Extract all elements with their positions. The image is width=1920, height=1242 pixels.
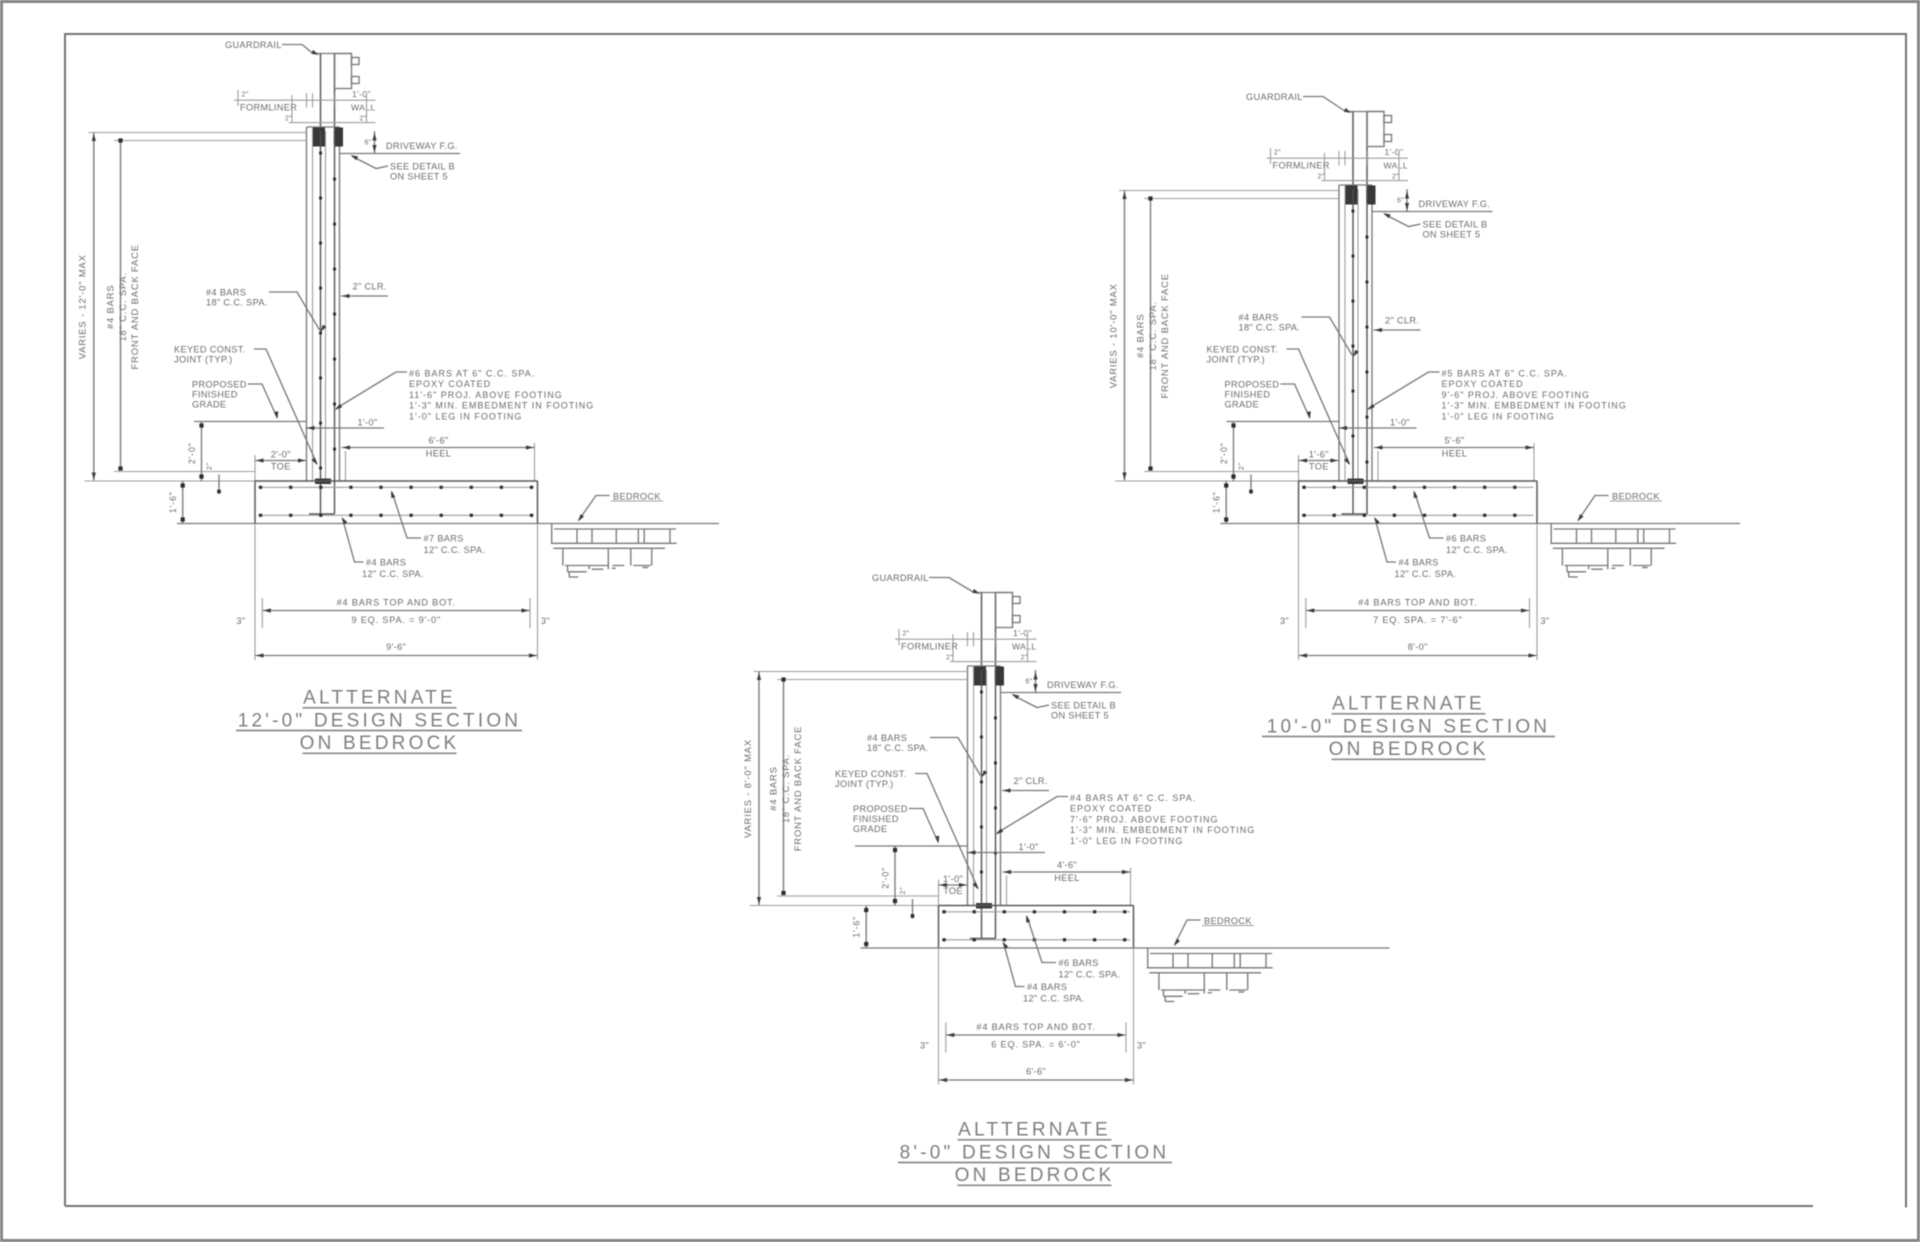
svg-text:#4 BARS: #4 BARS (206, 288, 246, 298)
svg-text:KEYED CONST.: KEYED CONST. (835, 769, 907, 779)
svg-text:ON SHEET 5: ON SHEET 5 (1051, 711, 1109, 721)
footing top rebar S1 (258, 486, 534, 488)
driveway offset dim S1 (374, 131, 376, 154)
svg-text:6": 6" (1397, 198, 1404, 205)
formliner dimension S3 (895, 638, 1037, 640)
wall mid line S1 (325, 131, 327, 481)
driveway surface S3 (1001, 692, 1122, 694)
wall back-face rebar S3 (981, 670, 983, 939)
svg-text:HEEL: HEEL (1442, 449, 1467, 459)
dowel leg in footing S3 (970, 938, 996, 940)
footing outline S3 (939, 905, 1134, 907)
svg-text:FORMLINER: FORMLINER (240, 103, 297, 113)
footing width dimension S1 (255, 655, 538, 657)
overall height dimension S1 (88, 132, 306, 134)
svg-text:ALTTERNATE: ALTTERNATE (303, 688, 456, 709)
svg-text:12" C.C. SPA.: 12" C.C. SPA. (424, 545, 486, 555)
svg-text:ALTTERNATE: ALTTERNATE (958, 1120, 1111, 1141)
svg-text:18" C.C. SPA.: 18" C.C. SPA. (206, 298, 268, 308)
svg-text:1'-6": 1'-6" (1309, 450, 1329, 460)
svg-text:#4 BARS: #4 BARS (105, 285, 116, 330)
svg-text:1'-0": 1'-0" (1019, 842, 1039, 852)
guardrail anchor blocks S2 (1346, 186, 1358, 205)
driveway surface S1 (340, 153, 461, 155)
svg-text:2": 2" (946, 655, 953, 662)
svg-text:GRADE: GRADE (853, 824, 887, 834)
svg-text:FINISHED: FINISHED (853, 814, 899, 824)
svg-text:ON BEDROCK: ON BEDROCK (1329, 739, 1489, 760)
svg-text:HEEL: HEEL (426, 449, 451, 459)
svg-text:3": 3" (1280, 616, 1289, 626)
svg-text:VARIES - 12'-0" MAX: VARIES - 12'-0" MAX (77, 254, 88, 359)
svg-text:KEYED CONST.: KEYED CONST. (1207, 345, 1279, 355)
bedrock line S1 (177, 523, 719, 525)
two inch tick S3 (912, 899, 914, 919)
svg-text:#6 BARS AT 6" C.C. SPA.: #6 BARS AT 6" C.C. SPA. (409, 369, 535, 379)
svg-text:GRADE: GRADE (1225, 400, 1259, 410)
svg-text:1'-6": 1'-6" (1212, 491, 1222, 513)
svg-text:HEEL: HEEL (1054, 873, 1079, 883)
svg-text:1'-0" LEG IN FOOTING: 1'-0" LEG IN FOOTING (409, 411, 522, 421)
keyed joint at wall base S1 (315, 479, 331, 485)
footing width dimension S3 (939, 1079, 1134, 1081)
svg-text:2": 2" (360, 116, 367, 123)
toe dimension S1 (254, 455, 256, 481)
svg-text:18" C.C. SPA.: 18" C.C. SPA. (1239, 323, 1301, 333)
svg-text:DRIVEWAY F.G.: DRIVEWAY F.G. (386, 141, 458, 151)
svg-text:3": 3" (237, 616, 246, 626)
svg-text:1'-6": 1'-6" (852, 916, 862, 938)
toe dimension S2 (1298, 455, 1300, 481)
svg-text:#4 BARS: #4 BARS (1135, 314, 1146, 359)
svg-text:2'-0": 2'-0" (187, 442, 197, 464)
wall mid line S2 (1357, 189, 1359, 481)
svg-text:FRONT AND BACK FACE: FRONT AND BACK FACE (792, 726, 803, 851)
svg-text:4'-6": 4'-6" (1057, 860, 1077, 870)
heel dimension S3 (1130, 868, 1132, 906)
footing top rebar S2 (1302, 486, 1534, 488)
heel dimension S2 (1533, 443, 1535, 481)
svg-text:7 EQ. SPA. = 7'-6": 7 EQ. SPA. = 7'-6" (1373, 615, 1462, 625)
svg-text:12" C.C. SPA.: 12" C.C. SPA. (1446, 545, 1508, 555)
svg-text:BEDROCK: BEDROCK (1204, 916, 1252, 926)
svg-text:1'-0": 1'-0" (943, 874, 963, 884)
wall back-face rebar S2 (1352, 189, 1354, 514)
svg-text:#4 BARS: #4 BARS (366, 558, 406, 568)
svg-text:#4 BARS TOP AND BOT.: #4 BARS TOP AND BOT. (337, 598, 456, 608)
wall rebar extent dimension S2 (1144, 198, 1339, 200)
svg-text:12'-0" DESIGN SECTION: 12'-0" DESIGN SECTION (238, 711, 521, 732)
svg-text:#4 BARS: #4 BARS (1399, 558, 1439, 568)
dowel leg in footing S1 (309, 513, 335, 515)
driveway surface S2 (1372, 211, 1493, 213)
svg-text:12" C.C. SPA.: 12" C.C. SPA. (1059, 970, 1121, 980)
svg-text:2": 2" (1318, 174, 1325, 181)
svg-text:FORMLINER: FORMLINER (901, 642, 958, 652)
svg-text:GUARDRAIL: GUARDRAIL (225, 40, 282, 50)
svg-text:TOE: TOE (1309, 462, 1329, 472)
guardrail rail bracket S3 (996, 593, 1013, 628)
svg-text:FRONT AND BACK FACE: FRONT AND BACK FACE (129, 244, 140, 369)
svg-text:3": 3" (1541, 616, 1550, 626)
svg-text:GRADE: GRADE (192, 400, 226, 410)
svg-text:1'-0": 1'-0" (1013, 628, 1032, 638)
bedrock line S3 (861, 947, 1390, 949)
svg-text:3": 3" (920, 1041, 929, 1051)
svg-text:1'-3" MIN. EMBEDMENT IN FOOTIN: 1'-3" MIN. EMBEDMENT IN FOOTING (1442, 401, 1627, 411)
svg-text:#4 BARS: #4 BARS (1027, 982, 1067, 992)
footing depth dimension S1 (182, 481, 184, 524)
svg-text:12" C.C. SPA.: 12" C.C. SPA. (362, 569, 424, 579)
svg-text:BEDROCK: BEDROCK (1612, 492, 1660, 502)
svg-text:WALL: WALL (1012, 642, 1036, 652)
svg-text:ON SHEET 5: ON SHEET 5 (1423, 230, 1481, 240)
formliner dimension 2 S3 (952, 634, 954, 662)
svg-text:#7 BARS: #7 BARS (424, 534, 464, 544)
two inch tick S2 (1250, 475, 1252, 495)
svg-text:ON BEDROCK: ON BEDROCK (300, 733, 460, 754)
proposed finished grade line S1 (194, 421, 307, 423)
svg-text:#6 BARS: #6 BARS (1059, 958, 1099, 968)
svg-text:10'-0" DESIGN SECTION: 10'-0" DESIGN SECTION (1267, 717, 1550, 738)
svg-text:EPOXY COATED: EPOXY COATED (1442, 379, 1524, 389)
svg-text:2'-0": 2'-0" (1219, 442, 1229, 464)
two inch tick S1 (218, 475, 220, 495)
svg-text:JOINT (TYP.): JOINT (TYP.) (174, 355, 232, 365)
svg-text:2" CLR.: 2" CLR. (1014, 776, 1048, 786)
svg-text:GUARDRAIL: GUARDRAIL (1246, 92, 1303, 102)
svg-text:11'-6" PROJ. ABOVE FOOTING: 11'-6" PROJ. ABOVE FOOTING (409, 390, 563, 400)
keyed joint at wall base S2 (1348, 479, 1364, 485)
svg-text:2'-0": 2'-0" (881, 867, 891, 889)
guardrail post S3 (978, 592, 1013, 594)
guardrail rail bracket S2 (1367, 112, 1384, 147)
svg-text:#4 BARS: #4 BARS (1239, 313, 1279, 323)
grade depth dimension S2 (1233, 422, 1235, 482)
grade depth dimension S1 (201, 422, 203, 482)
svg-text:1'-0" LEG IN FOOTING: 1'-0" LEG IN FOOTING (1442, 411, 1555, 421)
svg-text:6": 6" (1026, 679, 1033, 686)
svg-text:VARIES - 8'-0" MAX: VARIES - 8'-0" MAX (742, 739, 753, 838)
svg-text:#4 BARS: #4 BARS (768, 766, 779, 811)
svg-text:2": 2" (1021, 655, 1028, 662)
svg-text:FINISHED: FINISHED (1225, 390, 1271, 400)
svg-text:6'-6": 6'-6" (428, 436, 448, 446)
guardrail rail bracket S1 (335, 54, 352, 89)
svg-text:2": 2" (900, 886, 907, 894)
svg-text:8'-0" DESIGN SECTION: 8'-0" DESIGN SECTION (900, 1143, 1170, 1164)
footing bottom rebar S3 (942, 939, 1131, 941)
bedrock line S2 (1221, 523, 1741, 525)
svg-text:6'-6": 6'-6" (1026, 1067, 1046, 1077)
svg-text:2" CLR.: 2" CLR. (353, 282, 387, 292)
svg-text:2": 2" (1239, 462, 1246, 470)
svg-text:1'-0": 1'-0" (358, 418, 378, 428)
svg-text:12" C.C. SPA.: 12" C.C. SPA. (1395, 569, 1457, 579)
bedrock hatch (1554, 528, 1676, 530)
svg-text:DRIVEWAY F.G.: DRIVEWAY F.G. (1419, 199, 1491, 209)
svg-text:PROPOSED: PROPOSED (1225, 380, 1280, 390)
bedrock hatch (554, 528, 676, 530)
svg-text:#4 BARS AT 6" C.C. SPA.: #4 BARS AT 6" C.C. SPA. (1070, 793, 1196, 803)
svg-text:EPOXY COATED: EPOXY COATED (409, 379, 491, 389)
svg-text:SEE DETAIL B: SEE DETAIL B (390, 162, 455, 172)
formliner dimension 2 S2 (1324, 153, 1326, 181)
svg-text:JOINT (TYP.): JOINT (TYP.) (835, 779, 893, 789)
svg-text:1'-0": 1'-0" (1390, 418, 1410, 428)
svg-text:18" C.C. SPA.: 18" C.C. SPA. (117, 272, 128, 341)
wall front-face rebar dowel S2 (1366, 189, 1368, 514)
svg-text:DRIVEWAY F.G.: DRIVEWAY F.G. (1047, 680, 1119, 690)
svg-text:5'-6": 5'-6" (1444, 436, 1464, 446)
svg-text:TOE: TOE (943, 886, 963, 896)
svg-text:1'-3" MIN. EMBEDMENT IN FOOTIN: 1'-3" MIN. EMBEDMENT IN FOOTING (1070, 825, 1255, 835)
svg-text:JOINT (TYP.): JOINT (TYP.) (1207, 355, 1265, 365)
svg-text:#6 BARS: #6 BARS (1446, 534, 1486, 544)
wall stem S2 (1339, 184, 1372, 186)
driveway offset dim S2 (1406, 189, 1408, 212)
svg-text:1'-6": 1'-6" (168, 491, 178, 513)
formliner dimension S2 (1267, 157, 1409, 159)
svg-text:#4 BARS TOP AND BOT.: #4 BARS TOP AND BOT. (1358, 598, 1477, 608)
footing outline S2 (1299, 480, 1538, 482)
footing bottom rebar S2 (1302, 514, 1534, 516)
svg-text:18" C.C. SPA.: 18" C.C. SPA. (867, 743, 929, 753)
svg-text:WALL: WALL (1384, 161, 1408, 171)
svg-text:#4 BARS TOP AND BOT.: #4 BARS TOP AND BOT. (976, 1022, 1095, 1032)
svg-text:7'-6" PROJ. ABOVE FOOTING: 7'-6" PROJ. ABOVE FOOTING (1070, 814, 1218, 824)
keyed joint at wall base S3 (976, 903, 992, 909)
svg-text:12" C.C. SPA.: 12" C.C. SPA. (1023, 994, 1085, 1004)
wall rebar extent dimension S1 (114, 140, 307, 142)
svg-text:18" C.C. SPA.: 18" C.C. SPA. (1147, 301, 1158, 370)
svg-text:2'-0": 2'-0" (271, 450, 291, 460)
svg-text:2" CLR.: 2" CLR. (1385, 316, 1419, 326)
svg-text:6 EQ. SPA. = 6'-0": 6 EQ. SPA. = 6'-0" (991, 1040, 1080, 1050)
svg-text:EPOXY COATED: EPOXY COATED (1070, 804, 1152, 814)
svg-text:SEE DETAIL B: SEE DETAIL B (1051, 701, 1116, 711)
svg-text:#5 BARS AT 6" C.C. SPA.: #5 BARS AT 6" C.C. SPA. (1442, 369, 1568, 379)
bedrock hatch (1150, 953, 1272, 955)
wall mid line S3 (986, 670, 988, 906)
formliner dimension 2 S1 (291, 95, 293, 123)
grade depth dimension S3 (894, 846, 896, 906)
svg-text:3": 3" (541, 616, 550, 626)
svg-text:8'-0": 8'-0" (1408, 642, 1428, 652)
guardrail anchor blocks S1 (313, 128, 325, 147)
svg-text:#4 BARS: #4 BARS (867, 733, 907, 743)
svg-text:ALTTERNATE: ALTTERNATE (1332, 694, 1485, 715)
svg-text:PROPOSED: PROPOSED (192, 380, 247, 390)
svg-text:9 EQ. SPA. = 9'-0": 9 EQ. SPA. = 9'-0" (351, 615, 440, 625)
svg-text:1'-0" LEG IN FOOTING: 1'-0" LEG IN FOOTING (1070, 836, 1183, 846)
svg-text:2": 2" (285, 116, 292, 123)
svg-text:1'-3" MIN. EMBEDMENT IN FOOTIN: 1'-3" MIN. EMBEDMENT IN FOOTING (409, 401, 594, 411)
guardrail post S2 (1349, 111, 1384, 113)
toe dimension S3 (938, 880, 940, 906)
svg-text:2": 2" (242, 92, 249, 99)
svg-text:1'-0": 1'-0" (1385, 147, 1404, 157)
overall height dimension S3 (754, 671, 968, 673)
svg-text:BEDROCK: BEDROCK (613, 492, 661, 502)
wall stem S1 (307, 126, 340, 128)
footing width dimension S2 (1299, 655, 1538, 657)
svg-text:SEE DETAIL B: SEE DETAIL B (1423, 220, 1488, 230)
svg-text:VARIES - 10'-0" MAX: VARIES - 10'-0" MAX (1107, 283, 1118, 388)
footing outline S1 (255, 480, 538, 482)
proposed finished grade line S3 (855, 845, 968, 847)
wall rebar extent dimension S3 (777, 679, 968, 681)
svg-text:3": 3" (1137, 1041, 1146, 1051)
footing top rebar S3 (942, 911, 1131, 913)
svg-text:TOE: TOE (271, 462, 291, 472)
svg-text:2": 2" (903, 631, 910, 638)
svg-text:9'-6": 9'-6" (386, 642, 406, 652)
footing bottom rebar S1 (258, 514, 534, 516)
overall height dimension S2 (1119, 190, 1339, 192)
wall front-face rebar dowel S1 (334, 131, 336, 514)
svg-text:18" C.C. SPA.: 18" C.C. SPA. (780, 754, 791, 823)
svg-text:FORMLINER: FORMLINER (1273, 161, 1330, 171)
svg-text:GUARDRAIL: GUARDRAIL (872, 573, 929, 583)
wall back-face rebar S1 (320, 131, 322, 514)
dowel leg in footing S2 (1342, 513, 1368, 515)
footing depth dimension S2 (1225, 481, 1227, 524)
driveway offset dim S3 (1035, 670, 1037, 693)
svg-text:ON SHEET 5: ON SHEET 5 (390, 172, 448, 182)
guardrail post S1 (317, 53, 352, 55)
svg-text:2": 2" (207, 462, 214, 470)
formliner dimension S1 (234, 99, 376, 101)
svg-text:ON BEDROCK: ON BEDROCK (955, 1165, 1115, 1186)
wall stem S3 (968, 665, 1001, 667)
footing depth dimension S3 (865, 906, 867, 949)
proposed finished grade line S2 (1227, 421, 1340, 423)
svg-text:FRONT AND BACK FACE: FRONT AND BACK FACE (1159, 273, 1170, 398)
svg-text:PROPOSED: PROPOSED (853, 804, 908, 814)
svg-text:1'-0": 1'-0" (352, 89, 371, 99)
heel dimension S1 (534, 443, 536, 481)
svg-text:2": 2" (1392, 174, 1399, 181)
svg-text:2": 2" (1274, 150, 1281, 157)
svg-text:9'-6" PROJ. ABOVE FOOTING: 9'-6" PROJ. ABOVE FOOTING (1442, 390, 1590, 400)
guardrail anchor blocks S3 (974, 667, 986, 686)
wall front-face rebar dowel S3 (995, 670, 997, 939)
svg-text:KEYED CONST.: KEYED CONST. (174, 345, 246, 355)
svg-text:WALL: WALL (351, 103, 375, 113)
svg-text:FINISHED: FINISHED (192, 390, 238, 400)
svg-text:6": 6" (365, 140, 372, 147)
